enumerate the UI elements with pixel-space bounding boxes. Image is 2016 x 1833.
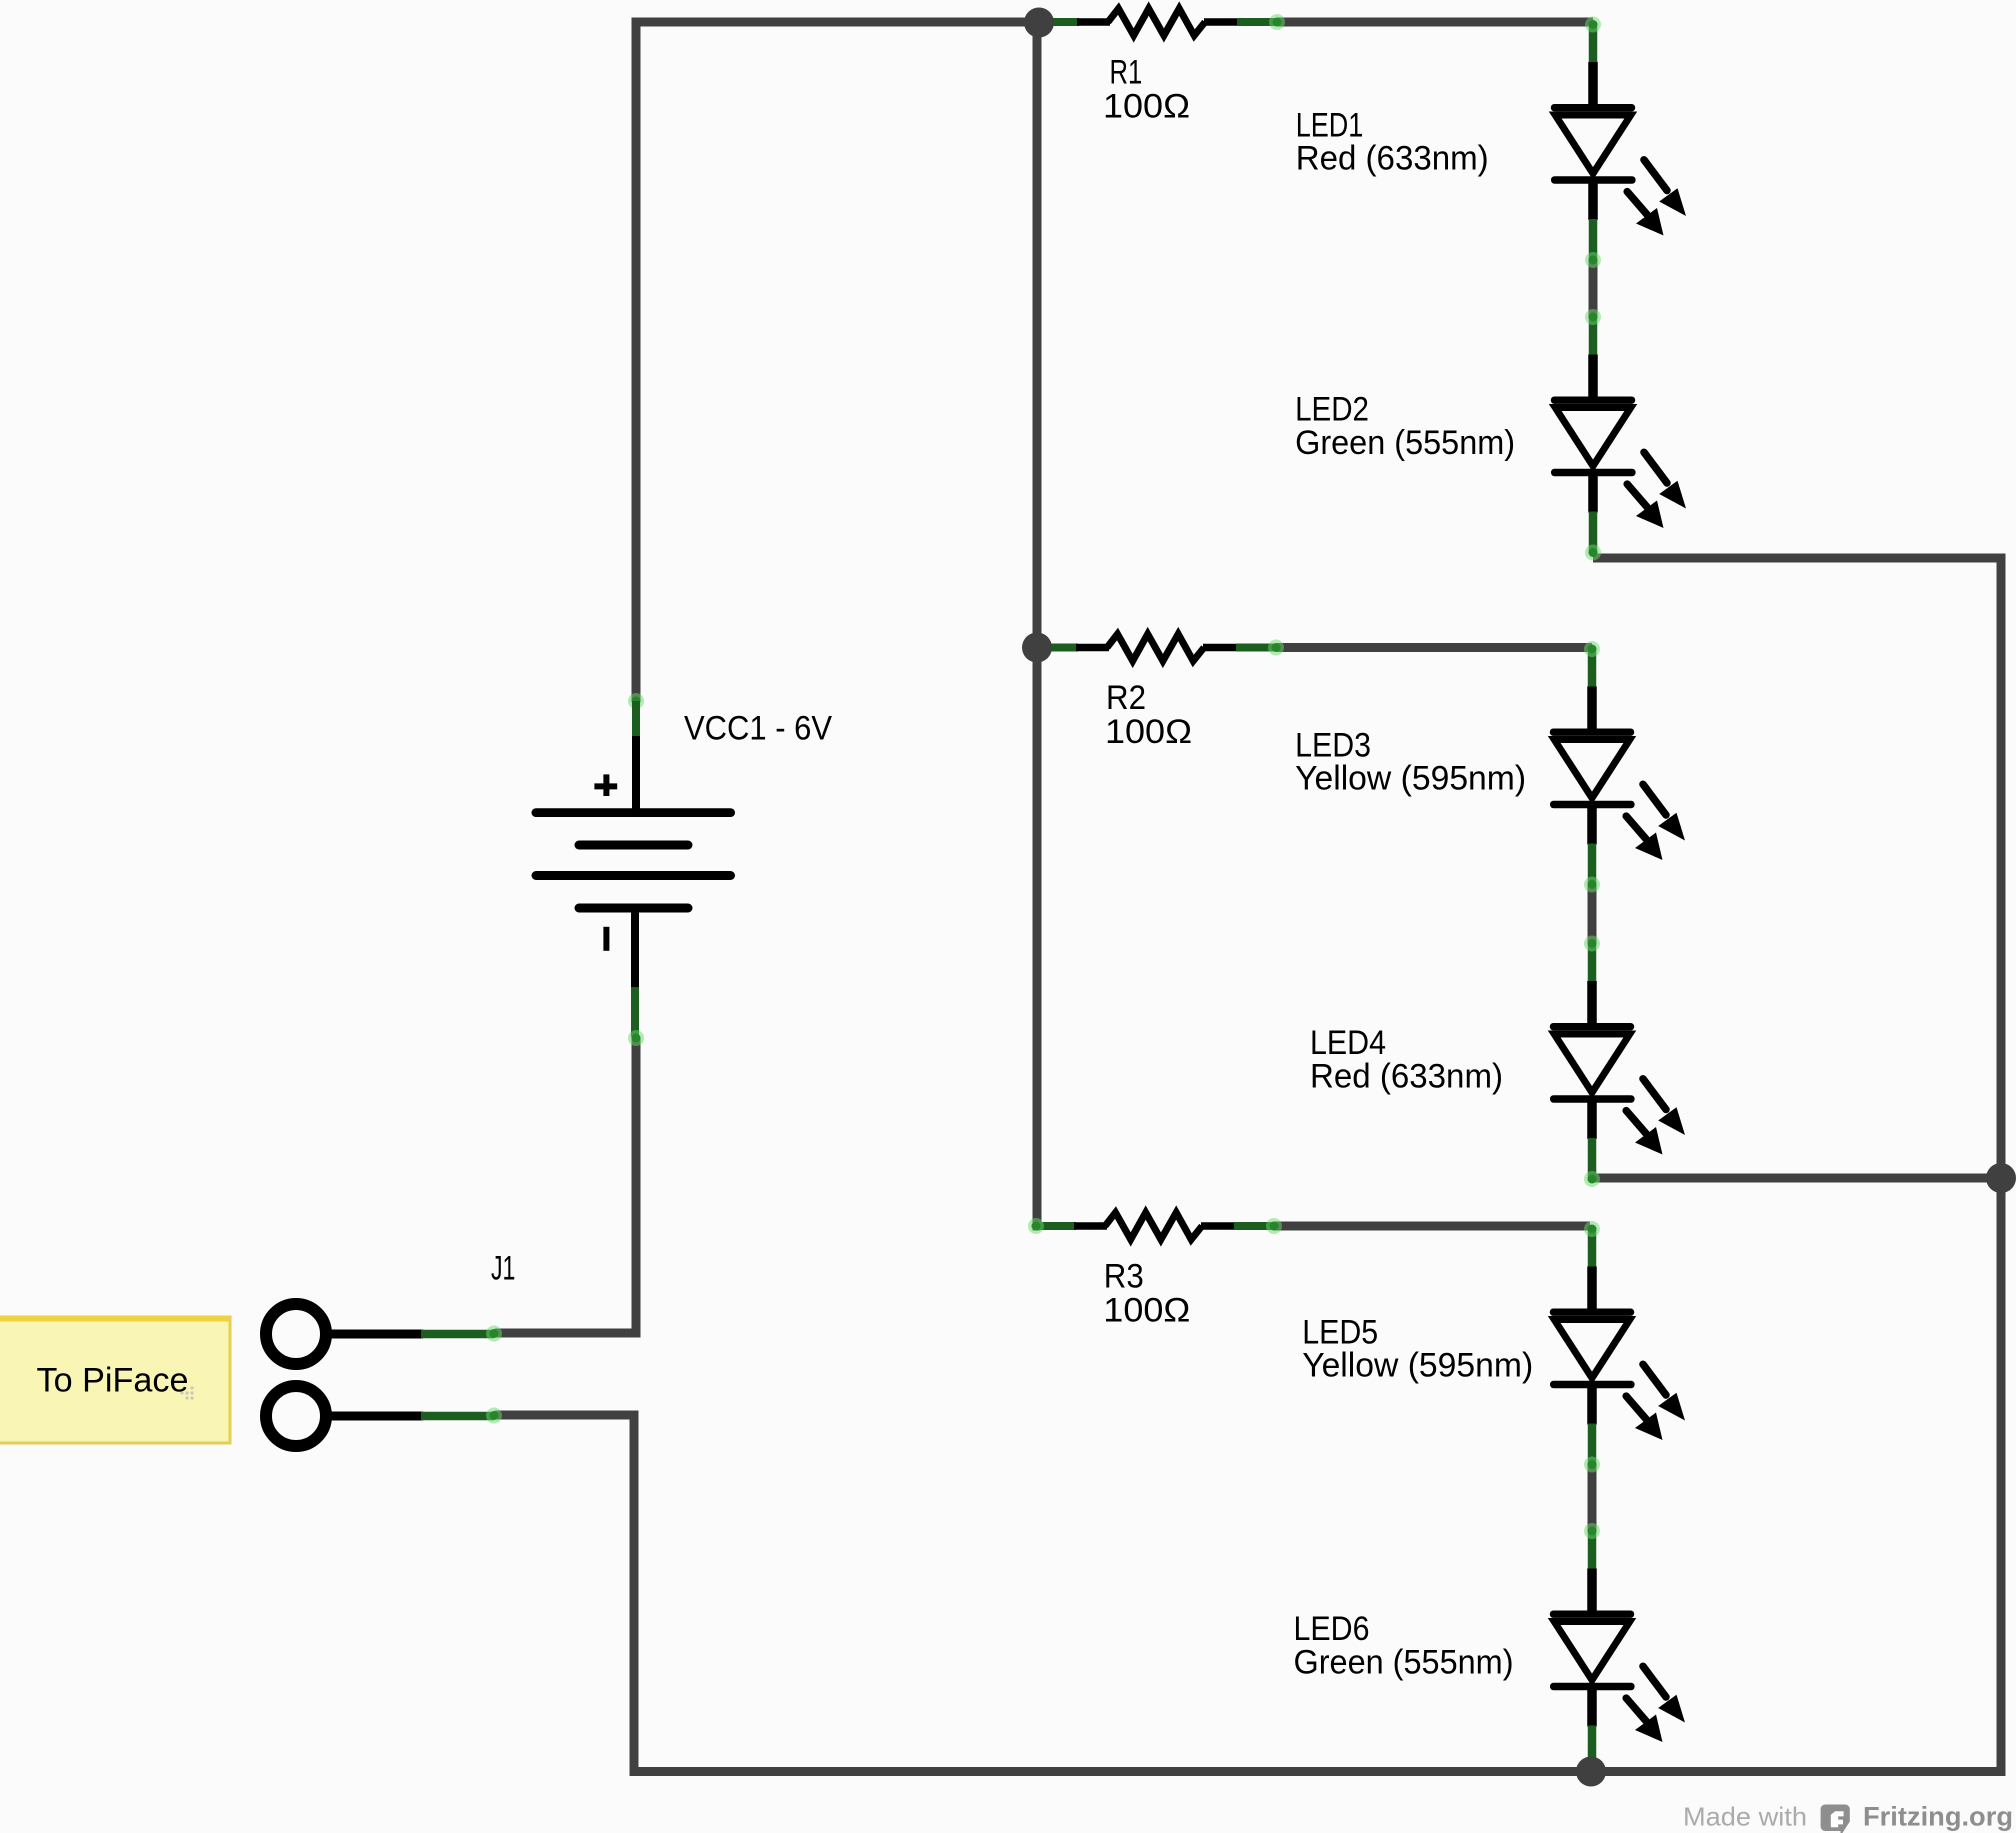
junction node: LED6 / bottom bus (1576, 1757, 1606, 1787)
LED LED3 (1550, 641, 1685, 893)
svg-text:R2: R2 (1106, 679, 1146, 717)
wire: top bus from battery to R1 junction (636, 22, 1039, 701)
wire: vertical bus junction to R2 and R3 (1037, 22, 1040, 1226)
LED LED2 (1551, 309, 1686, 561)
svg-text:100Ω: 100Ω (1103, 1291, 1190, 1329)
svg-text:LED3: LED3 (1295, 726, 1371, 764)
svg-text:Red (633nm): Red (633nm) (1296, 140, 1489, 178)
wire: J1 pin2 to bottom bus (495, 1415, 2001, 1772)
green node at R3 corner (1028, 1218, 1044, 1234)
svg-text:LED1: LED1 (1296, 106, 1364, 144)
wire: LED4 output to right bus (1593, 1174, 2001, 1183)
svg-text:J1: J1 (491, 1250, 515, 1288)
junction node: top bus / R1 (1024, 8, 1054, 38)
svg-text:100Ω: 100Ω (1105, 713, 1192, 751)
svg-text:LED6: LED6 (1294, 1610, 1370, 1648)
LED LED1 (1551, 17, 1686, 269)
svg-text:Green (555nm): Green (555nm) (1294, 1644, 1514, 1682)
junction node: LED4 output / right bus (1986, 1163, 2016, 1193)
note To PiFace (0, 1316, 230, 1444)
junction node: bus / R2 (1022, 633, 1052, 663)
resistor R1 (1039, 9, 1285, 36)
watermark Made with Fritzing.org (1683, 1801, 2013, 1833)
svg-text:R1: R1 (1110, 53, 1143, 91)
wire: R2 output to LED3 (1276, 643, 1592, 652)
wire: LED5 to LED6 link (1588, 1463, 1597, 1532)
wire: R3 output to LED5 (1274, 1222, 1590, 1231)
svg-text:Made with: Made with (1683, 1801, 1807, 1831)
svg-text:Fritzing.org: Fritzing.org (1863, 1801, 2013, 1831)
resistor R2 (1038, 634, 1284, 661)
connector J1 pin 2 (266, 1386, 502, 1446)
battery VCC1 (532, 693, 736, 1046)
svg-text:100Ω: 100Ω (1103, 87, 1190, 125)
LED LED6 (1550, 1523, 1685, 1775)
wire: LED1 to LED2 link (1589, 259, 1598, 318)
svg-text:LED5: LED5 (1302, 1313, 1378, 1351)
svg-text:Red (633nm): Red (633nm) (1310, 1057, 1503, 1095)
svg-text:R3: R3 (1104, 1257, 1144, 1295)
resistor R3 (1036, 1213, 1282, 1240)
svg-text:LED2: LED2 (1295, 391, 1369, 429)
LED LED4 (1550, 936, 1685, 1188)
svg-text:To PiFace: To PiFace (37, 1361, 189, 1399)
wire: R1 output to LED1 (1277, 18, 1593, 27)
wire: LED3 to LED4 link (1588, 883, 1597, 944)
svg-text:VCC1 - 6V: VCC1 - 6V (684, 709, 832, 747)
wire: right vertical bus (1997, 554, 2006, 1777)
connector J1 pin 1 (266, 1304, 502, 1364)
LED LED5 (1550, 1221, 1685, 1473)
wire: battery minus down to J1 pin1 row (495, 1038, 636, 1333)
svg-text:Yellow (595nm): Yellow (595nm) (1295, 760, 1526, 798)
svg-text:Green (555nm): Green (555nm) (1295, 424, 1515, 462)
svg-text:Yellow (595nm): Yellow (595nm) (1302, 1347, 1533, 1385)
wire: LED2 output to right bus (1593, 554, 2001, 563)
